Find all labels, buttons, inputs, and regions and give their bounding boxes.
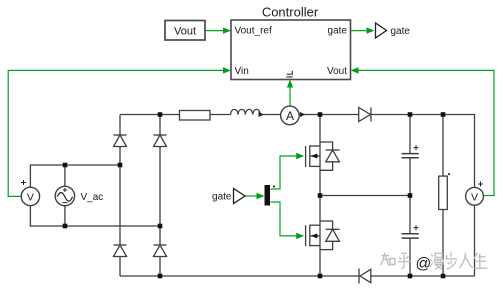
svg-text:V: V	[27, 191, 34, 203]
svg-text:gate: gate	[212, 192, 232, 203]
svg-text:gate: gate	[391, 26, 411, 37]
svg-text:Vout: Vout	[174, 25, 196, 37]
svg-text:gate: gate	[328, 26, 348, 37]
svg-text:V_ac: V_ac	[81, 192, 104, 203]
svg-text:A: A	[286, 109, 294, 123]
svg-text:Vout: Vout	[327, 66, 347, 77]
svg-text:Vin: Vin	[235, 66, 249, 77]
svg-text:Vout_ref: Vout_ref	[235, 26, 272, 37]
svg-text:V: V	[471, 191, 478, 203]
svg-text:@: @	[416, 255, 432, 272]
svg-text:Controller: Controller	[262, 5, 319, 20]
